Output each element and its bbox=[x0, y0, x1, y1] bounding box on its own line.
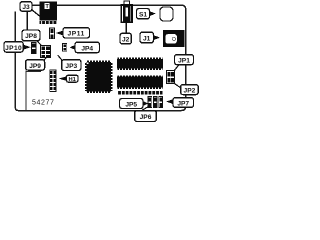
svg-text:JP7: JP7 bbox=[177, 100, 189, 107]
svg-text:JP4: JP4 bbox=[81, 45, 93, 52]
wire JP6 leader bbox=[141, 107, 149, 112]
arrow JP11 bbox=[56, 30, 64, 35]
IC U3 pins top bbox=[117, 75, 162, 77]
arrow JP10 bbox=[23, 45, 30, 50]
transformer T1 marker bbox=[45, 3, 50, 9]
label JP7 bbox=[173, 98, 194, 108]
jumper block JP5/7 c bbox=[159, 97, 163, 108]
transformer T1 body bbox=[40, 2, 57, 21]
IC U1 pins right bbox=[111, 63, 113, 92]
label JP3 bbox=[62, 60, 81, 71]
label JP1 bbox=[175, 55, 194, 65]
label JP5 bbox=[120, 99, 144, 109]
label J2 bbox=[120, 33, 131, 44]
switch S1 bbox=[160, 7, 173, 21]
connector J2 tab bbox=[124, 1, 130, 5]
wire JP9 leader bbox=[44, 56, 47, 60]
label JP9 bbox=[26, 60, 45, 70]
arrow JP7 bbox=[166, 99, 174, 104]
arrow H1 bbox=[59, 76, 67, 81]
label J1 bbox=[140, 32, 154, 43]
label JP2 bbox=[181, 85, 199, 95]
svg-text:JP3: JP3 bbox=[65, 63, 77, 70]
IC U1 pins left bbox=[85, 63, 87, 92]
svg-text:JP10: JP10 bbox=[5, 45, 22, 52]
svg-text:JP8: JP8 bbox=[25, 33, 37, 40]
IC U2 body (DIP) bbox=[117, 59, 163, 69]
inner region line vertical bbox=[25, 71, 26, 111]
pad row below U3 bbox=[118, 91, 163, 94]
label JP6 bbox=[135, 111, 157, 122]
jumper block JP5/7 b bbox=[153, 97, 157, 108]
IC U3 pins bottom bbox=[117, 87, 162, 89]
jumper cluster B (JP8/JP9) bbox=[40, 45, 50, 57]
connector J2 body bbox=[121, 5, 132, 22]
svg-text:S1: S1 bbox=[139, 12, 147, 19]
jack J1 inner bbox=[165, 34, 176, 43]
svg-text:J3: J3 bbox=[22, 4, 30, 11]
arrow JP5 bbox=[143, 101, 149, 106]
IC U1 pins top bbox=[87, 61, 111, 63]
transformer T1 pin row bbox=[40, 21, 57, 24]
label JP10 bbox=[4, 42, 23, 52]
label H1 bbox=[67, 75, 79, 82]
svg-text:54277: 54277 bbox=[32, 99, 54, 106]
wire JP3 leader bbox=[58, 55, 62, 60]
jumper block C (JP4) bbox=[63, 43, 67, 51]
wire JP1 leader bbox=[174, 65, 178, 70]
svg-text:JP1: JP1 bbox=[178, 58, 190, 65]
label J3 bbox=[20, 2, 32, 12]
label JP4 bbox=[75, 42, 100, 52]
jumper cluster JP1/JP2 bbox=[167, 71, 175, 84]
wire J3 to JP8 bbox=[27, 11, 28, 31]
label JP8 bbox=[22, 30, 40, 41]
jumper block A (JP10) bbox=[32, 43, 37, 54]
arrow S1 bbox=[149, 11, 156, 16]
wire J3 to transformer bbox=[32, 10, 40, 17]
header H1 block bbox=[50, 70, 56, 91]
svg-text:JP2: JP2 bbox=[184, 88, 196, 95]
svg-text:J2: J2 bbox=[122, 36, 130, 43]
label JP11 bbox=[63, 28, 90, 38]
label S1 bbox=[137, 9, 150, 19]
svg-text:T: T bbox=[45, 4, 49, 10]
IC U2 pins bottom bbox=[117, 68, 162, 70]
connector J2 inner bbox=[123, 6, 131, 22]
IC U3 body (DIP) bbox=[117, 77, 163, 88]
jack J1 body bbox=[163, 30, 185, 47]
svg-text:H1: H1 bbox=[68, 77, 76, 83]
svg-text:JP5: JP5 bbox=[125, 101, 137, 108]
wire J2 stem bbox=[126, 23, 127, 34]
svg-text:J1: J1 bbox=[143, 35, 151, 42]
IC U1 body (QFP) bbox=[86, 62, 111, 92]
svg-text:JP11: JP11 bbox=[67, 31, 84, 38]
IC U2 pins top bbox=[117, 58, 162, 60]
wire JP8 to jumper cluster bbox=[37, 41, 42, 46]
IC U1 pins bottom bbox=[87, 91, 111, 93]
connector J2 slot bbox=[125, 7, 128, 16]
board outline bbox=[15, 5, 185, 110]
arrow JP4 bbox=[70, 45, 76, 50]
jumper block JP11 bbox=[50, 28, 55, 39]
svg-text:JP6: JP6 bbox=[140, 114, 152, 121]
wire JP2 leader bbox=[174, 83, 181, 88]
arrow J1 bbox=[153, 35, 160, 40]
svg-text:JP9: JP9 bbox=[29, 63, 41, 70]
inner region line horizontal bbox=[25, 71, 41, 72]
jumper block JP5/7 a bbox=[148, 97, 152, 108]
IC U1 pin1 dot bbox=[87, 63, 89, 65]
